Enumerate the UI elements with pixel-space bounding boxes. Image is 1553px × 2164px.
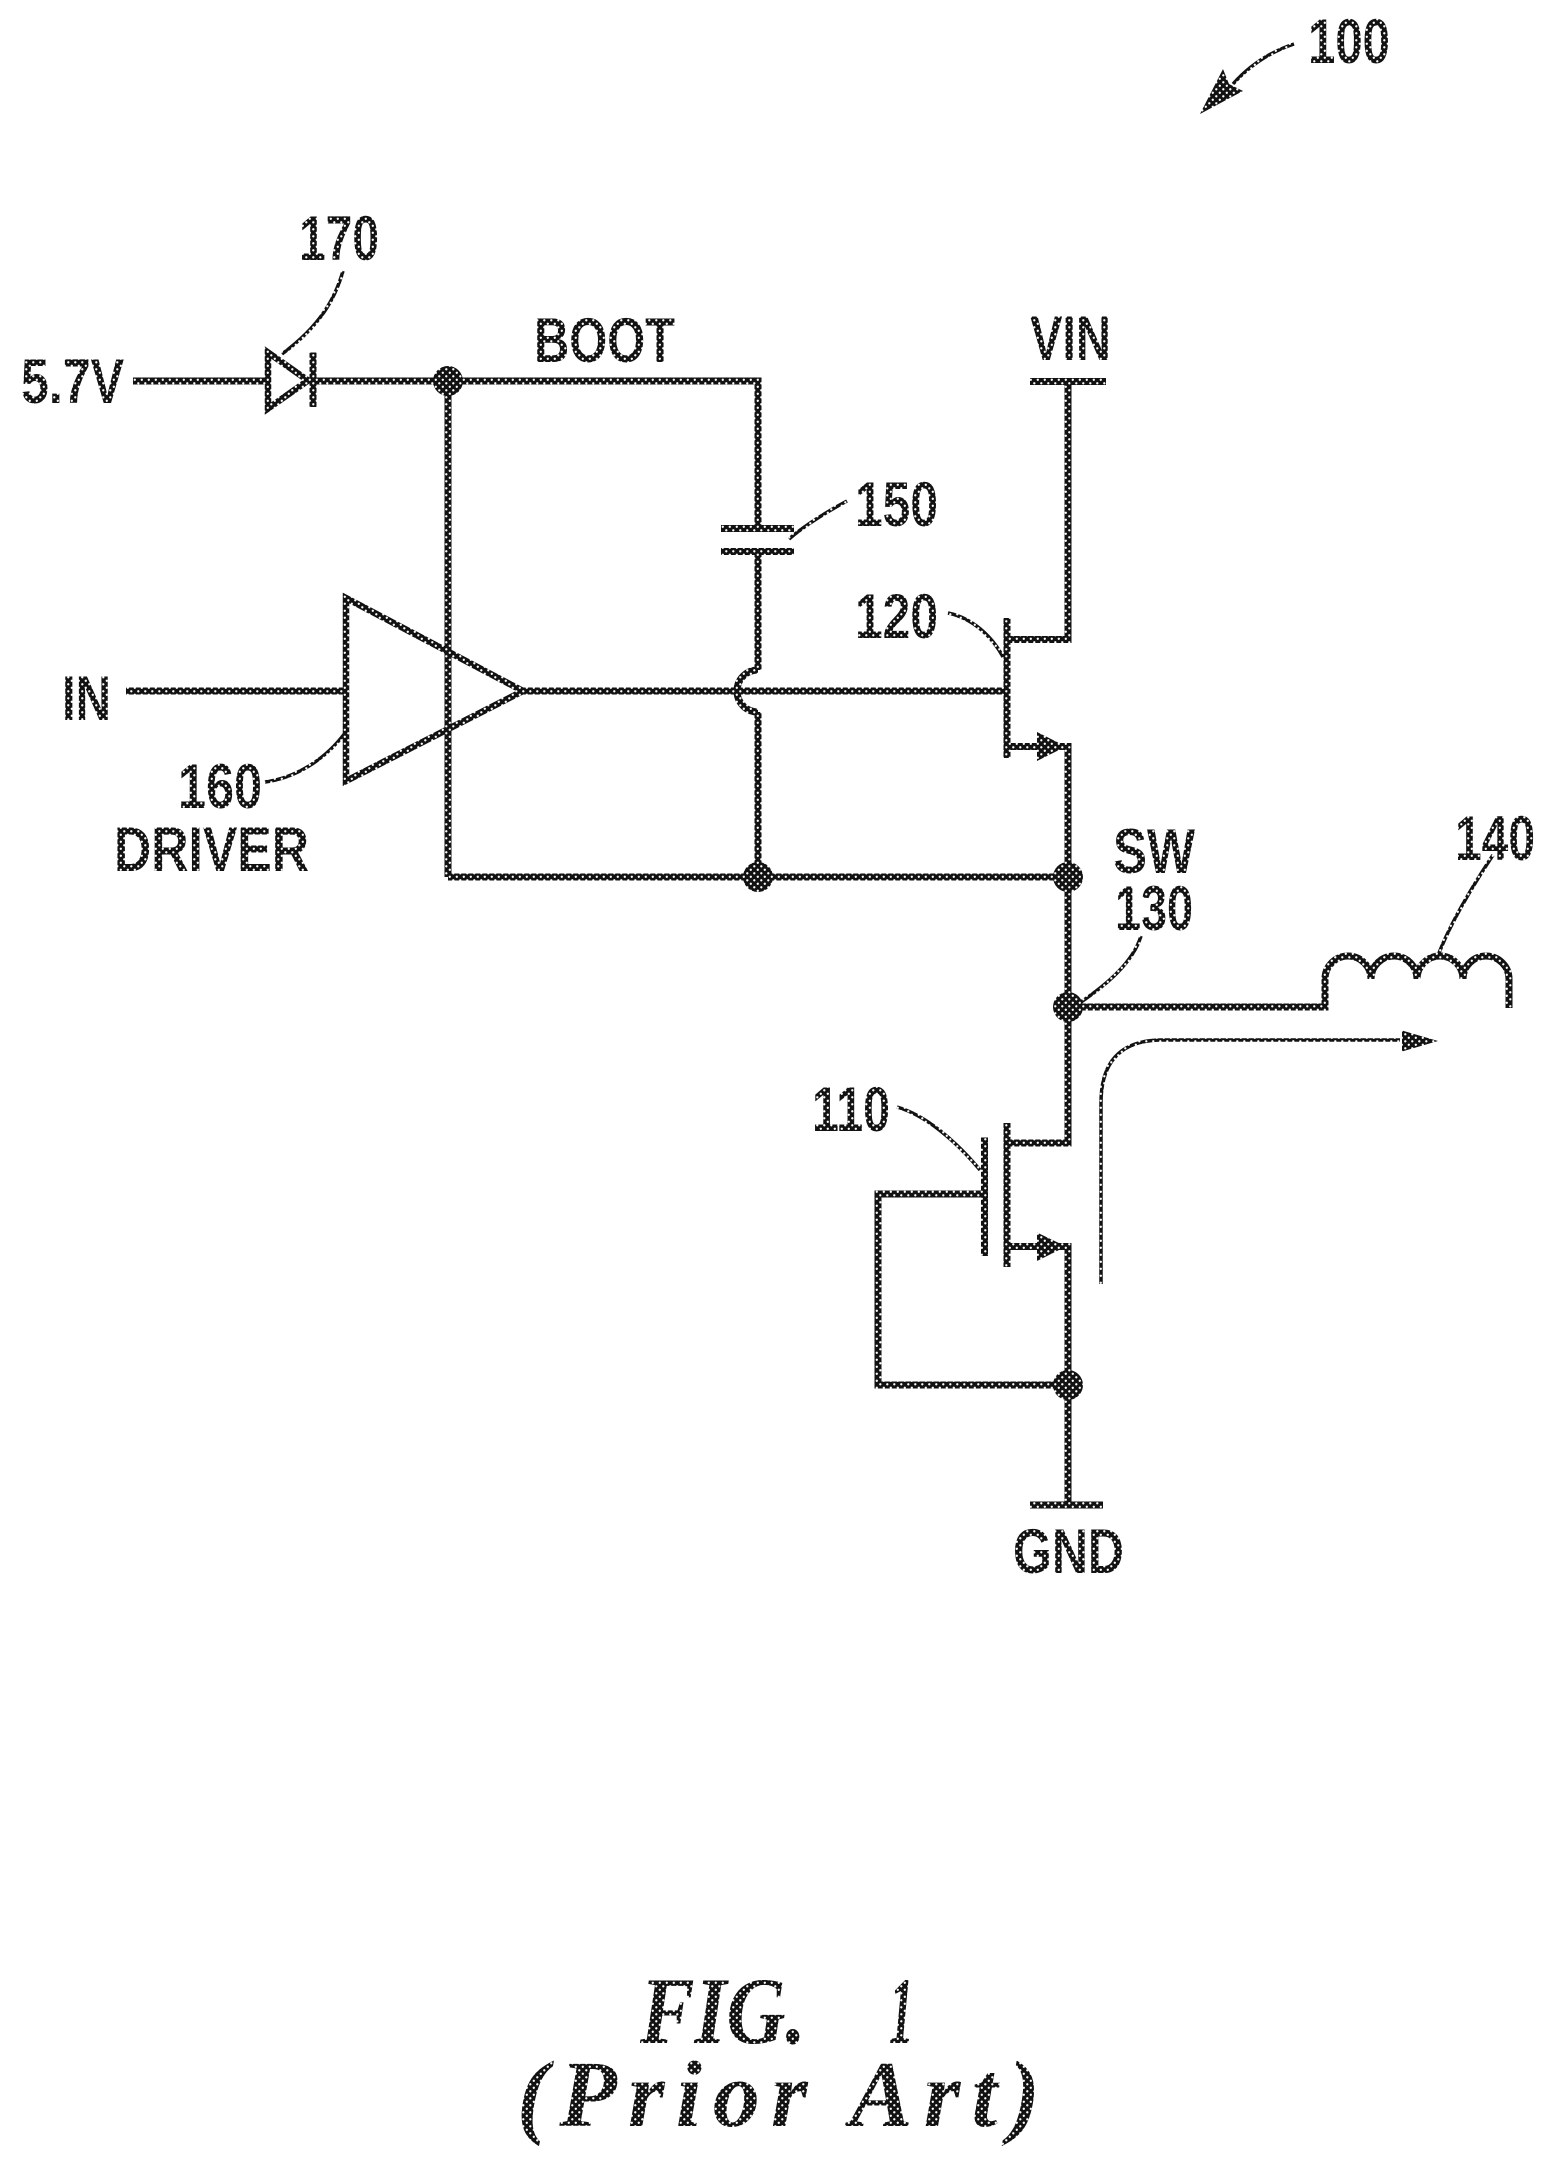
svg-text:160: 160 — [178, 752, 262, 822]
svg-text:DRIVER: DRIVER — [114, 815, 309, 885]
svg-text:GND: GND — [1013, 1517, 1124, 1587]
svg-text:5.7V: 5.7V — [21, 347, 124, 417]
svg-text:VIN: VIN — [1030, 304, 1111, 374]
svg-text:110: 110 — [812, 1075, 890, 1145]
svg-text:120: 120 — [855, 582, 938, 652]
svg-text:BOOT: BOOT — [534, 306, 675, 376]
svg-text:100: 100 — [1308, 7, 1390, 77]
svg-text:IN: IN — [62, 664, 111, 734]
svg-text:140: 140 — [1455, 804, 1535, 874]
svg-text:130: 130 — [1115, 874, 1193, 944]
svg-text:150: 150 — [855, 470, 938, 540]
svg-text:170: 170 — [299, 204, 379, 274]
